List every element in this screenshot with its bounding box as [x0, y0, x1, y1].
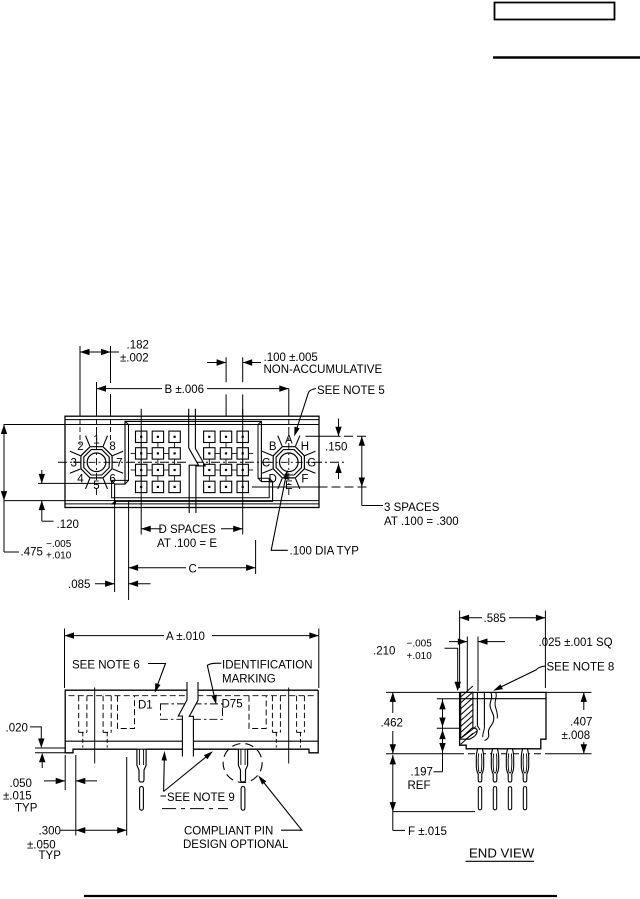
- side view: left keying cavity hidden box: [118, 696, 135, 729]
- dim 3 spaces vertical line with arrows: [361, 436, 363, 505]
- svg-text:6: 6: [109, 473, 115, 485]
- top view: connector body outer rectangle: [65, 416, 319, 507]
- svg-text:.197: .197: [411, 766, 433, 778]
- end view: dim .462 vertical with arrows and inline text: [392, 692, 394, 713]
- top view: insert outer outline with key notches: [115, 421, 273, 501]
- title block box (empty): [495, 3, 615, 20]
- top view: extension line through last contact column (D spaces): [242, 409, 244, 535]
- svg-text:.585: .585: [484, 613, 506, 625]
- svg-text:SEE NOTE 9: SEE NOTE 9: [167, 792, 235, 804]
- svg-text:C: C: [189, 563, 197, 575]
- side view: right keying cavity hidden box: [249, 696, 266, 729]
- side view: dim A +-.010 extension lines: [64, 629, 66, 689]
- keying centerline cross: [288, 428, 290, 497]
- svg-text:.100 ±.005: .100 ±.005: [264, 352, 318, 364]
- dim .182 +-.002 dimension line and arrows: [80, 351, 111, 353]
- svg-text:SEE NOTE 5: SEE NOTE 5: [317, 385, 385, 397]
- svg-text:+.010: +.010: [407, 651, 433, 662]
- end view: retention cavity wavy contour (see note 8): [485, 692, 494, 740]
- end view: four compliant pins: [476, 749, 483, 782]
- end view: top line extended left for .462: [386, 691, 460, 693]
- side view: break lines with white gap: [178, 682, 198, 757]
- keying pin hole circle .100 DIA: [280, 453, 299, 472]
- dim B +-.006 left extension at left keying center: [96, 382, 98, 416]
- end view: body outline: [460, 692, 546, 748]
- svg-text:G: G: [307, 457, 316, 469]
- top view: contact cavity squares with center dots (4 rows x 6 cols): [136, 431, 147, 442]
- end view: dim .585 dimension line and arrows: [460, 617, 482, 619]
- svg-text:E: E: [285, 480, 293, 492]
- end view: .197 tick lines: [437, 698, 460, 700]
- top view: extension line through first contact column (D spaces): [140, 409, 142, 535]
- keying centerline cross: [96, 428, 98, 497]
- svg-text:±.008: ±.008: [562, 730, 591, 742]
- side view: flange interface line: [65, 740, 318, 742]
- svg-text:DESIGN OPTIONAL: DESIGN OPTIONAL: [183, 839, 289, 851]
- top view: break lines through insert: [189, 409, 199, 513]
- side view: left cavity combs (hidden): [78, 696, 80, 733]
- svg-text:TYP: TYP: [39, 850, 62, 862]
- side view: datum dash line under note 9: [162, 808, 228, 810]
- dim .150 right side: down arrow to row A line: [338, 419, 340, 437]
- svg-text:COMPLIANT PIN: COMPLIANT PIN: [184, 825, 273, 837]
- svg-text:±.015: ±.015: [3, 790, 32, 802]
- svg-text:1: 1: [93, 435, 99, 447]
- keying pin hole circle .100 DIA: [87, 453, 106, 472]
- svg-text:D1: D1: [138, 700, 153, 712]
- end view: press-fit hatched block: [461, 692, 478, 739]
- end view: dim .585 extension lines: [459, 611, 461, 689]
- dim C extension right: [255, 540, 257, 574]
- leader SEE NOTE 5 line and arrow to keying A: [296, 389, 317, 433]
- svg-text:±.002: ±.002: [120, 353, 149, 365]
- svg-text:D: D: [269, 473, 277, 485]
- svg-text:5: 5: [93, 480, 99, 492]
- keying radial index ticks: [305, 451, 315, 455]
- end view: hatch lines: [461, 686, 477, 744]
- top view: horizontal centerline through keying centers: [58, 461, 347, 463]
- row D extension dashed right: [319, 486, 368, 488]
- keying radial index ticks: [113, 451, 123, 455]
- svg-text:.300: .300: [39, 825, 61, 837]
- side view: compliant pin highlight circle (dashed): [223, 744, 262, 783]
- side view: right cavity combs (hidden): [271, 696, 273, 733]
- side view: dim .050 arrows and extensions: [64, 755, 66, 790]
- top view: insert inner outline: [112, 425, 270, 498]
- svg-text:D75: D75: [222, 699, 243, 711]
- end view: pin tip plane line for F dim: [393, 811, 475, 813]
- side view: cavity top hidden line: [69, 695, 316, 697]
- end view: dim F +-.015 elbow and text: [393, 829, 405, 831]
- svg-text:H: H: [301, 441, 309, 453]
- svg-text:.025 ±.001 SQ: .025 ±.001 SQ: [539, 637, 613, 649]
- end view: dim .407 +-.008 extensions: [546, 691, 592, 693]
- svg-text:F: F: [301, 473, 308, 485]
- end view: F dim continues down from seat: [390, 755, 396, 765]
- end view: second top line: [460, 698, 546, 700]
- svg-text:.020: .020: [6, 723, 28, 735]
- dim C dimension line with arrows: [129, 567, 186, 569]
- svg-text:7: 7: [116, 457, 122, 469]
- side view: .020 extension lines left of body: [35, 747, 65, 749]
- svg-text:D SPACES: D SPACES: [159, 524, 217, 536]
- svg-text:.100 DIA TYP: .100 DIA TYP: [290, 546, 360, 558]
- side view: dim .300 dimension line, extension, arrows: [126, 757, 128, 836]
- svg-text:.475: .475: [21, 547, 43, 559]
- svg-text:B ±.006: B ±.006: [165, 384, 205, 396]
- dim .120 arrows: [41, 470, 43, 483]
- side view: dim A +-.010 dimension line: [65, 635, 165, 637]
- pin at x=141.5: [137, 749, 146, 782]
- dim .100 +-.005 extension lines at contact columns: [225, 357, 227, 382]
- dim .182 +-.002 extension lines: [79, 346, 81, 416]
- dim .475 elbow and text: [4, 551, 19, 553]
- svg-text:.085: .085: [68, 579, 90, 591]
- keying outer octagon: [81, 447, 112, 478]
- hidden extension dashes inside body at keying: [79, 419, 81, 445]
- svg-text:.407: .407: [570, 716, 592, 728]
- svg-text:MARKING: MARKING: [222, 673, 276, 685]
- svg-text:−.005: −.005: [46, 539, 72, 550]
- end view: dim .407 vertical with arrows: [583, 692, 585, 710]
- dim .100 +-.005 arrows (outside): [207, 362, 226, 364]
- top view: body inner ledge lines: [65, 419, 319, 421]
- side view: body outline with standoff feet: [65, 690, 318, 753]
- top view: grid centermark ticks between squares: [140, 443, 142, 448]
- leader .100 DIA TYP: [271, 475, 288, 551]
- end view: seating plane line: [386, 753, 457, 755]
- svg-text:.120: .120: [57, 519, 79, 531]
- dim .150 up arrow to centerline: [335, 464, 341, 474]
- header rule line: [493, 56, 640, 59]
- end view: dim .025 arrows (outside): [449, 641, 467, 643]
- svg-text:.462: .462: [381, 717, 403, 729]
- keying inner octagon: [84, 450, 109, 475]
- top view: insert corner bevel diagonals: [125, 421, 129, 424]
- bottom border rule: [84, 895, 557, 897]
- dim 3 spaces elbow and text: [362, 505, 383, 507]
- svg-text:.050: .050: [10, 778, 32, 790]
- svg-text:SEE NOTE 6: SEE NOTE 6: [72, 659, 140, 671]
- svg-text:REF: REF: [408, 780, 431, 792]
- side view: hidden drops through flange: [82, 732, 84, 747]
- side view: .020 lower arrow: [39, 753, 45, 763]
- svg-text:+.010: +.010: [46, 551, 72, 562]
- svg-text:B: B: [269, 441, 277, 453]
- dim B +-.006 dimension line: [97, 388, 163, 390]
- side view: keying centerline right: [288, 688, 290, 764]
- side view: identification marking box (phantom): [161, 704, 223, 719]
- svg-text:C: C: [262, 457, 270, 469]
- keying outer octagon: [273, 447, 304, 478]
- dim .475 vertical line with arrows at left: [3, 425, 5, 553]
- top view: key notch bevel mark left: [111, 500, 117, 505]
- top view: keying slot line left: [38, 482, 115, 484]
- dim B right extension at right keying center: [288, 389, 290, 416]
- top view: keying slot line right: [252, 486, 319, 488]
- svg-text:F ±.015: F ±.015: [408, 826, 447, 838]
- keying inner octagon: [276, 450, 301, 475]
- dim D SPACES dimension line with arrows: [141, 528, 162, 530]
- dim .120 elbow and text: [41, 501, 43, 522]
- svg-text:A ±.010: A ±.010: [166, 631, 205, 643]
- svg-text:3: 3: [70, 457, 76, 469]
- side view: keying centerline left: [94, 688, 96, 764]
- svg-text:A: A: [285, 435, 293, 447]
- row A extension line dashed: [306, 435, 341, 437]
- svg-text:.182: .182: [127, 340, 149, 352]
- end view: dim .197 vertical with stacked arrows: [442, 699, 444, 772]
- svg-text:4: 4: [77, 473, 84, 485]
- top view: .475 extension lines to left: [4, 424, 66, 426]
- svg-text:END VIEW: END VIEW: [469, 845, 535, 860]
- svg-text:IDENTIFICATION: IDENTIFICATION: [222, 659, 313, 671]
- pin at x=243.0: [238, 749, 247, 782]
- svg-text:SEE NOTE 8: SEE NOTE 8: [547, 661, 615, 673]
- svg-text:.150: .150: [325, 442, 347, 454]
- svg-text:3 SPACES: 3 SPACES: [384, 502, 440, 514]
- svg-text:−.005: −.005: [407, 638, 433, 649]
- end view: pin shank square in cavity: [476, 692, 478, 725]
- svg-text:AT .100 = E: AT .100 = E: [157, 538, 217, 550]
- dim .085 extension lines: [114, 501, 116, 592]
- end view: dim .025 +-.001 SQ extensions at pin shank: [466, 637, 468, 692]
- svg-text:TYP: TYP: [15, 802, 38, 814]
- end view: dim .197 REF elbow and text: [434, 771, 443, 773]
- svg-text:NON-ACCUMULATIVE: NON-ACCUMULATIVE: [264, 364, 383, 376]
- svg-text:AT .100 = .300: AT .100 = .300: [384, 516, 459, 528]
- svg-text:.210: .210: [373, 645, 395, 657]
